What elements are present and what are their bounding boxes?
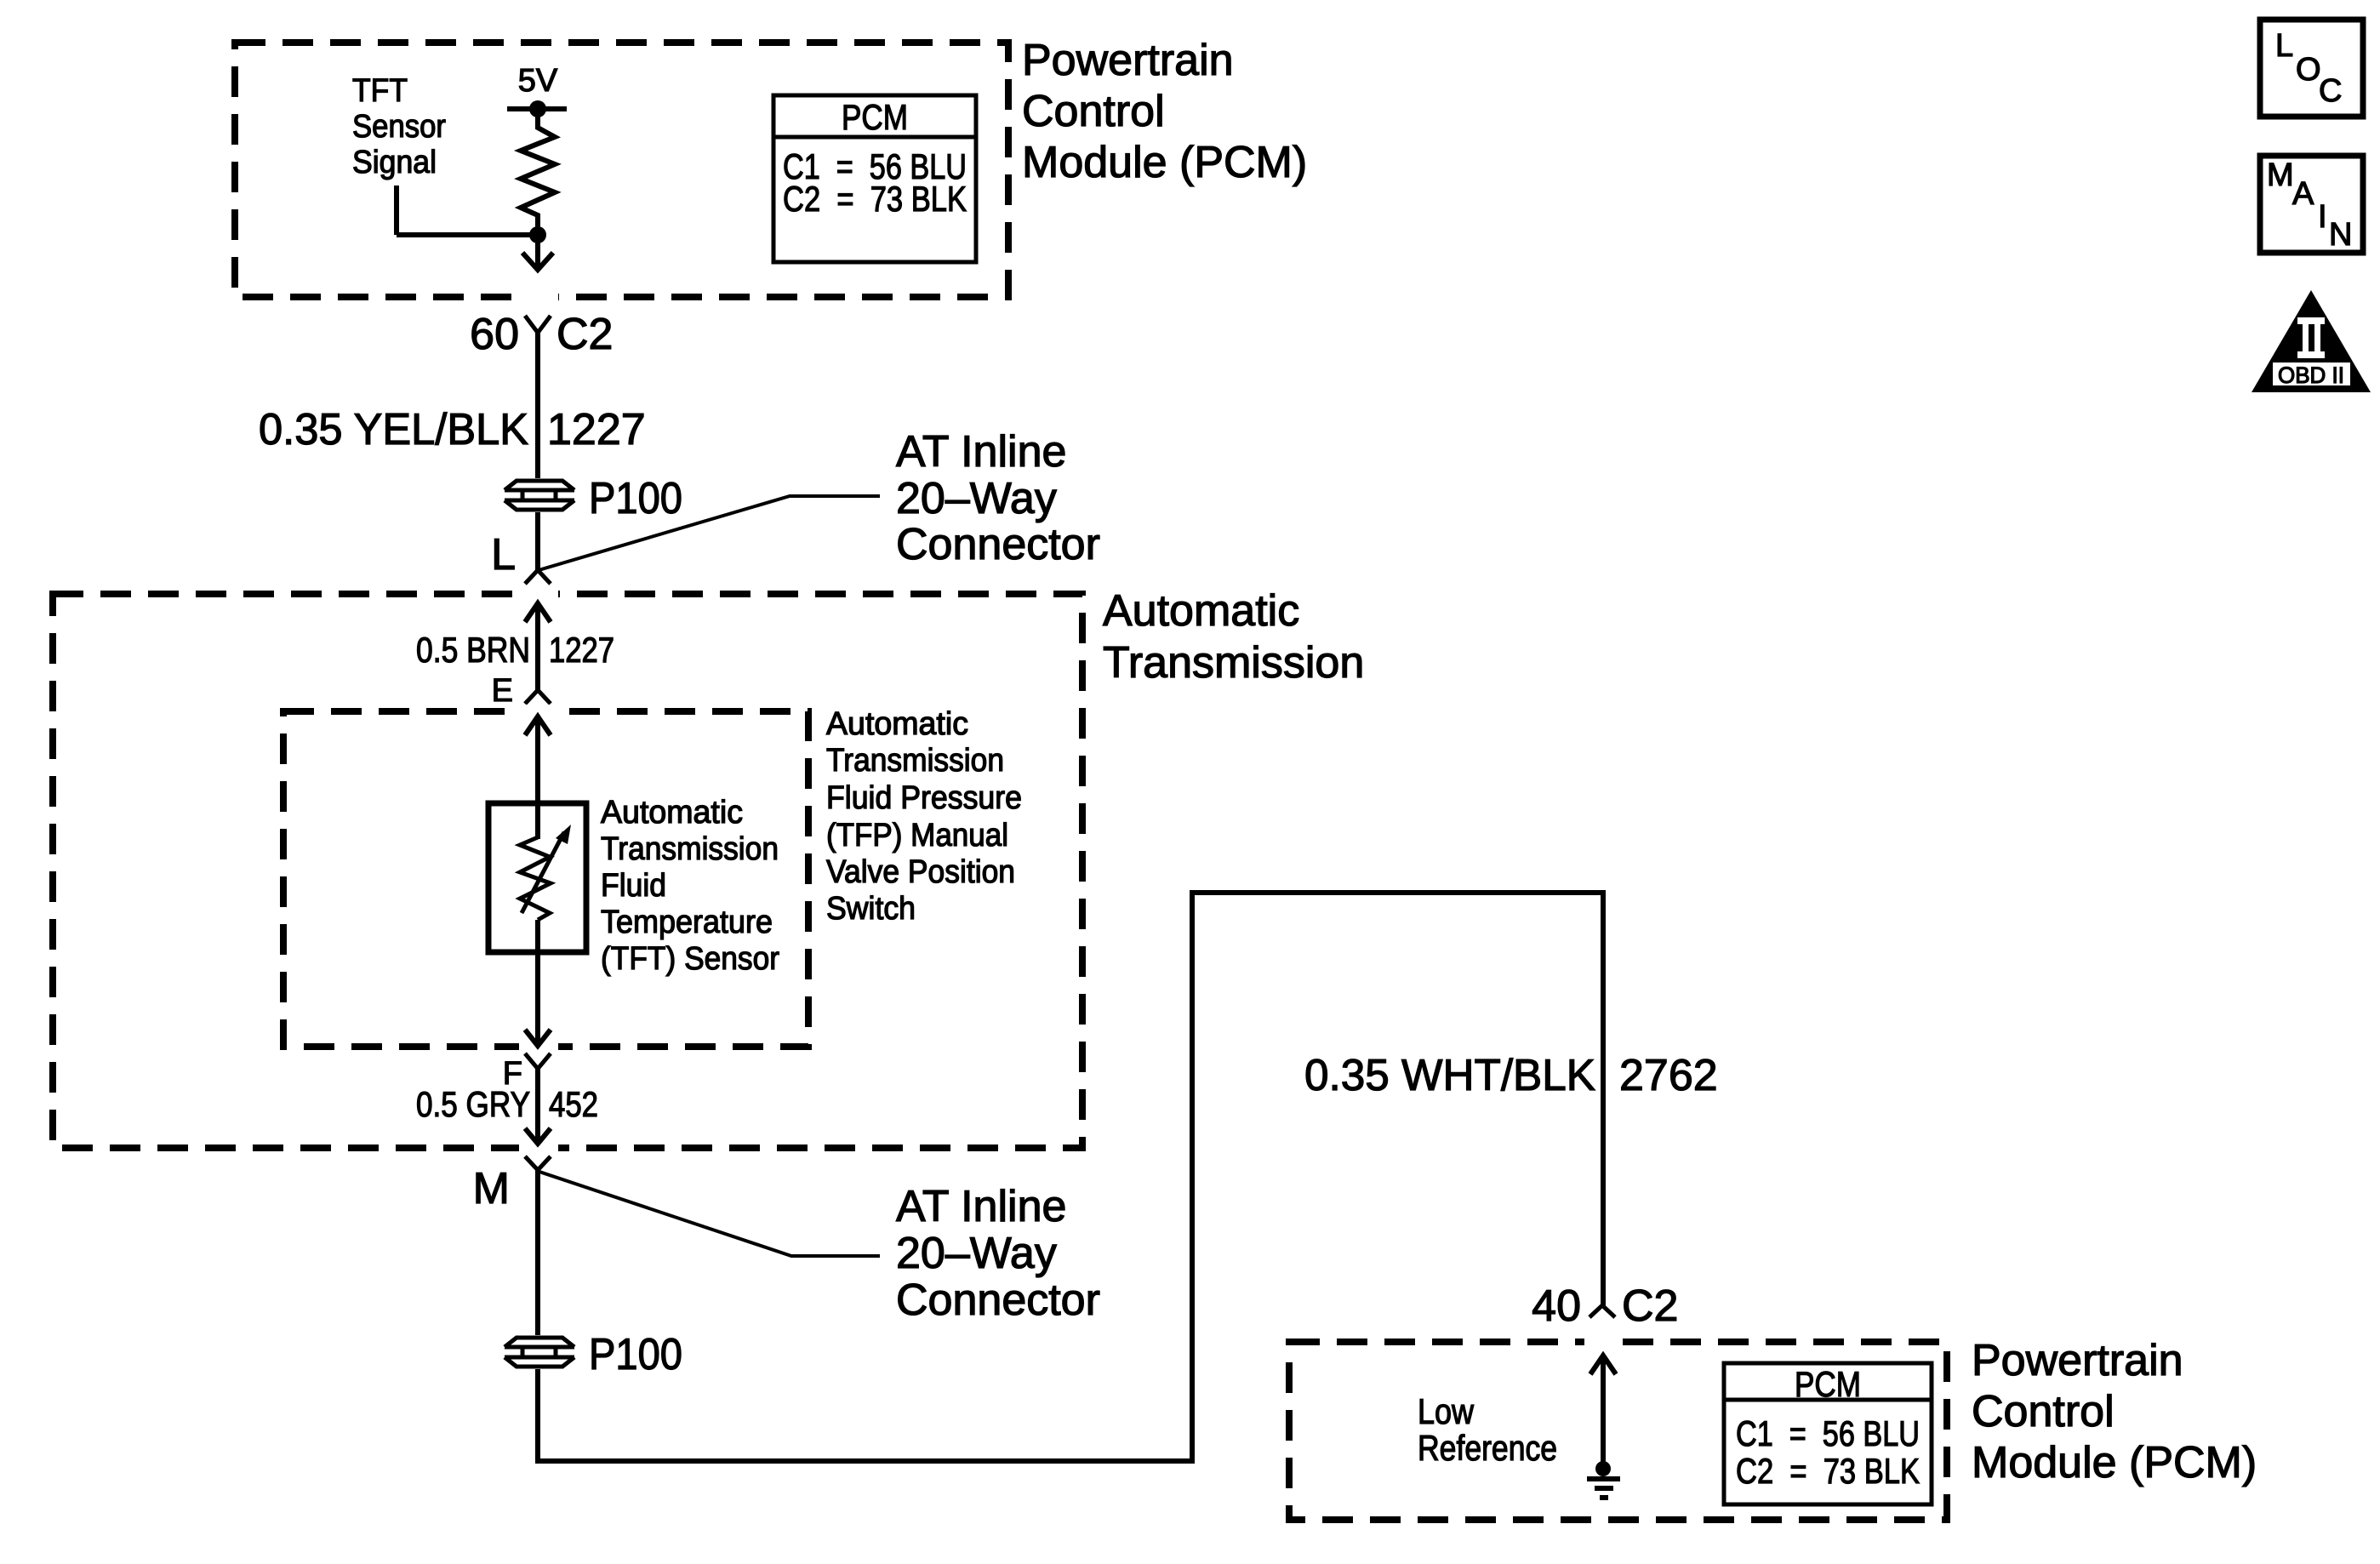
svg-text:Transmission: Transmission	[601, 831, 779, 867]
svg-text:A: A	[2292, 176, 2314, 212]
svg-text:L: L	[491, 530, 516, 579]
svg-text:O: O	[2296, 52, 2321, 88]
svg-text:40: 40	[1532, 1281, 1581, 1331]
svg-text:Control: Control	[1972, 1387, 2115, 1436]
svg-text:1227: 1227	[547, 405, 646, 454]
svg-text:2762: 2762	[1619, 1051, 1718, 1100]
svg-text:20–Way: 20–Way	[896, 1229, 1057, 1278]
svg-text:Switch: Switch	[826, 891, 916, 927]
svg-text:Fluid: Fluid	[601, 868, 666, 904]
svg-text:0.35 YEL/BLK: 0.35 YEL/BLK	[259, 405, 528, 454]
svg-text:C2: C2	[1622, 1281, 1678, 1331]
svg-text:Automatic: Automatic	[826, 706, 968, 742]
svg-text:Module (PCM): Module (PCM)	[1022, 138, 1307, 187]
svg-text:Connector: Connector	[896, 520, 1100, 569]
svg-text:Temperature: Temperature	[601, 905, 773, 940]
svg-text:PCM: PCM	[842, 97, 908, 137]
svg-text:Automatic: Automatic	[1103, 586, 1299, 636]
svg-text:M: M	[2267, 157, 2294, 193]
svg-text:Fluid Pressure: Fluid Pressure	[826, 780, 1022, 816]
svg-text:C2: C2	[556, 310, 613, 359]
svg-text:Powertrain: Powertrain	[1972, 1336, 2183, 1385]
svg-text:OBD II: OBD II	[2278, 362, 2344, 388]
svg-text:5V: 5V	[518, 63, 558, 99]
svg-text:0.5 GRY: 0.5 GRY	[416, 1084, 530, 1124]
svg-text:20–Way: 20–Way	[896, 474, 1057, 523]
svg-text:Automatic: Automatic	[601, 795, 743, 831]
svg-text:Signal: Signal	[352, 145, 437, 180]
svg-text:Valve Position: Valve Position	[826, 854, 1015, 890]
svg-text:1227: 1227	[549, 630, 614, 670]
svg-text:L: L	[2275, 28, 2293, 64]
svg-text:C1 = 56 BLU: C1 = 56 BLU	[1736, 1413, 1920, 1453]
svg-text:Powertrain: Powertrain	[1022, 36, 1234, 85]
svg-text:P100: P100	[589, 1330, 682, 1379]
svg-text:E: E	[492, 673, 513, 709]
svg-text:C: C	[2319, 73, 2342, 109]
svg-text:Reference: Reference	[1418, 1428, 1557, 1468]
svg-text:Low: Low	[1418, 1391, 1475, 1431]
svg-text:0.5 BRN: 0.5 BRN	[416, 630, 530, 670]
svg-text:(TFT) Sensor: (TFT) Sensor	[601, 941, 779, 977]
svg-text:C2 = 73 BLK: C2 = 73 BLK	[1736, 1451, 1920, 1491]
svg-text:Module (PCM): Module (PCM)	[1972, 1438, 2257, 1487]
svg-text:60: 60	[470, 310, 519, 359]
svg-text:AT Inline: AT Inline	[896, 1182, 1066, 1231]
svg-text:TFT: TFT	[352, 73, 408, 109]
svg-text:Connector: Connector	[896, 1276, 1100, 1325]
svg-text:C2 = 73 BLK: C2 = 73 BLK	[783, 179, 967, 219]
svg-text:PCM: PCM	[1795, 1364, 1861, 1404]
svg-text:Control: Control	[1022, 87, 1165, 136]
svg-text:N: N	[2329, 217, 2352, 253]
svg-text:0.35 WHT/BLK: 0.35 WHT/BLK	[1304, 1051, 1595, 1100]
svg-text:452: 452	[549, 1084, 598, 1124]
svg-text:P100: P100	[589, 474, 682, 523]
svg-text:Transmission: Transmission	[1103, 638, 1364, 688]
svg-text:M: M	[473, 1164, 510, 1213]
svg-text:(TFP) Manual: (TFP) Manual	[826, 818, 1008, 853]
svg-text:Transmission: Transmission	[826, 743, 1004, 779]
svg-text:I: I	[2318, 199, 2327, 235]
svg-text:Sensor: Sensor	[352, 109, 446, 145]
svg-text:AT Inline: AT Inline	[896, 427, 1066, 477]
